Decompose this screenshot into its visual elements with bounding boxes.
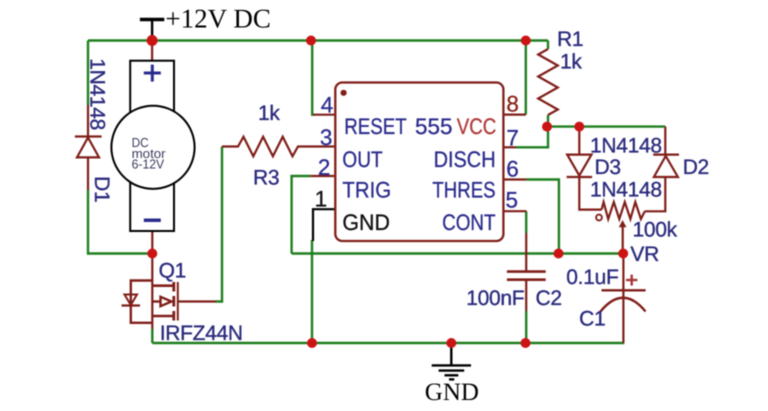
svg-text:2: 2 [318, 155, 331, 180]
svg-text:1N4148: 1N4148 [590, 179, 662, 202]
svg-text:IRFZ44N: IRFZ44N [160, 322, 243, 345]
svg-text:1N4148: 1N4148 [590, 135, 662, 158]
svg-text:5: 5 [506, 187, 519, 212]
svg-text:0.1uF: 0.1uF [566, 266, 618, 289]
svg-text:C1: C1 [579, 308, 605, 331]
svg-text:8: 8 [506, 92, 519, 117]
svg-text:D1: D1 [90, 176, 113, 202]
svg-text:VR: VR [630, 243, 659, 266]
svg-text:6-12V: 6-12V [132, 157, 165, 172]
svg-text:GND: GND [425, 379, 479, 406]
svg-text:100nF: 100nF [466, 287, 524, 310]
svg-text:GND: GND [342, 210, 390, 235]
svg-text:3: 3 [320, 125, 333, 150]
svg-text:R1: R1 [557, 28, 583, 51]
svg-text:D3: D3 [595, 156, 621, 179]
svg-text:1N4148: 1N4148 [86, 58, 109, 130]
svg-text:1k: 1k [258, 102, 280, 125]
svg-text:RESET: RESET [344, 114, 407, 139]
svg-text:DISCH: DISCH [434, 147, 496, 172]
svg-text:4: 4 [321, 92, 334, 117]
svg-text:TRIG: TRIG [342, 177, 391, 202]
svg-text:6: 6 [506, 157, 519, 182]
svg-text:1k: 1k [560, 51, 582, 74]
svg-text:R3: R3 [253, 167, 279, 190]
svg-text:1: 1 [315, 186, 328, 211]
svg-text:VCC: VCC [457, 114, 497, 139]
svg-text:7: 7 [506, 125, 519, 150]
svg-text:D2: D2 [683, 156, 709, 179]
svg-text:+12V DC: +12V DC [165, 4, 271, 34]
svg-text:OUT: OUT [342, 147, 382, 172]
svg-text:555: 555 [415, 114, 453, 139]
svg-text:THRES: THRES [432, 177, 495, 202]
svg-text:Q1: Q1 [159, 260, 186, 283]
svg-text:100k: 100k [633, 219, 678, 242]
svg-text:CONT: CONT [442, 210, 496, 235]
svg-text:C2: C2 [536, 287, 562, 310]
